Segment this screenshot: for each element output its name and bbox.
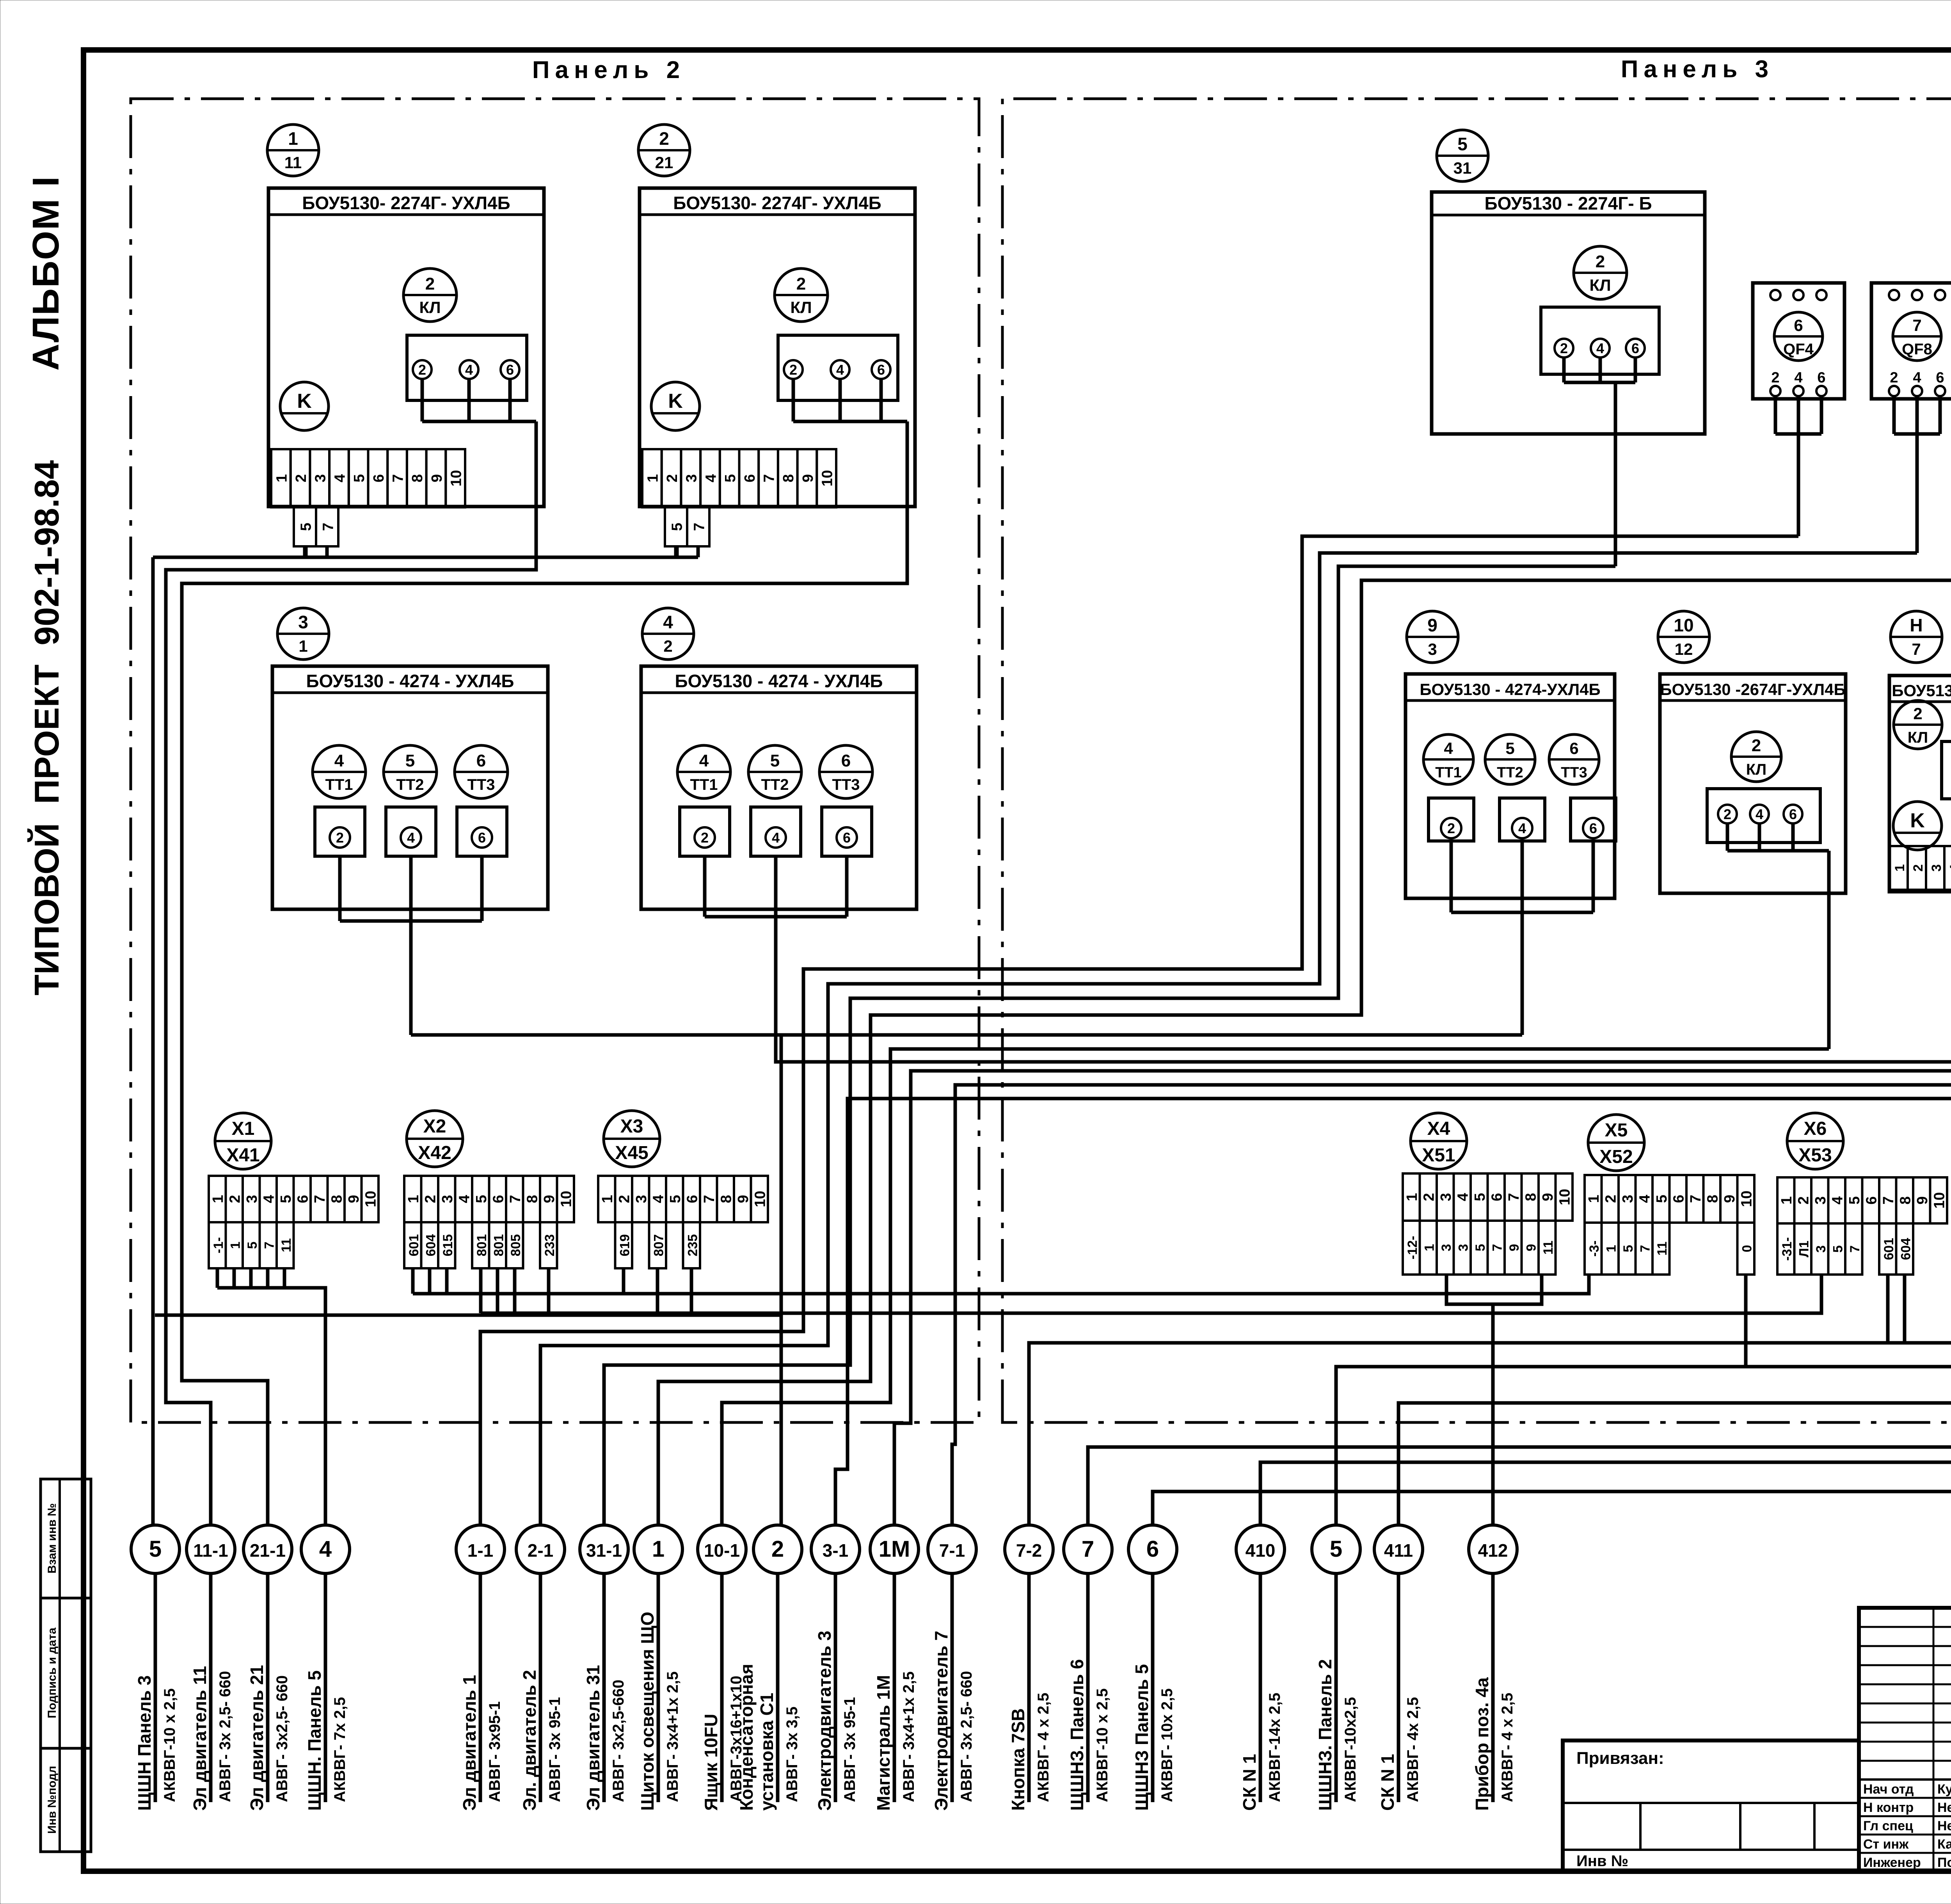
wire tap to circle 2 [780, 1035, 783, 1524]
wire block 2/21 sub 7 drop [697, 546, 700, 557]
svg-text:2: 2 [1724, 806, 1731, 822]
terminal strip X3 sub label 235 [683, 1222, 700, 1268]
svg-text:2: 2 [1447, 820, 1455, 836]
cable 2 lead [776, 1573, 780, 1802]
terminal 6 [872, 360, 890, 379]
cable 7-1 labels [931, 1631, 975, 1811]
svg-text:ТИПОВОЙ ПРОЕКТ 902-1-98.84: ТИПОВОЙ ПРОЕКТ 902-1-98.84 [27, 460, 66, 996]
cable 3-1 lead [834, 1573, 837, 1802]
svg-text:-12-: -12- [1405, 1236, 1420, 1259]
svg-text:Взам инв №: Взам инв № [46, 1503, 59, 1573]
terminal strip X6 sub labels 601,604 [1879, 1223, 1913, 1275]
svg-text:АВВГ- 3х2,5-660: АВВГ- 3х2,5-660 [610, 1680, 627, 1802]
circle 6/QF4 [1774, 312, 1823, 361]
pos circle 1/11 [267, 124, 319, 176]
cable circle 7-2 [1005, 1525, 1053, 1573]
svg-text:5: 5 [770, 751, 780, 770]
wire 10/12 drop [1827, 851, 1831, 1049]
svg-text:4: 4 [1596, 340, 1604, 356]
CT output square 2 [315, 807, 365, 856]
CT output square 2 (9/3) [1429, 798, 1474, 841]
svg-text:7: 7 [1490, 1244, 1505, 1252]
cable 2-1 lead [539, 1573, 542, 1802]
CT output square 6 [457, 807, 507, 856]
svg-text:6: 6 [1489, 1193, 1505, 1201]
terminal 2 [413, 360, 432, 379]
svg-text:4: 4 [1444, 739, 1453, 757]
wire block 4/2 CT join 2-6 [705, 856, 847, 917]
cable 411 lead [1397, 1573, 1400, 1802]
svg-text:21-1: 21-1 [250, 1540, 286, 1561]
svg-text:8: 8 [409, 474, 426, 482]
svg-text:X41: X41 [226, 1145, 259, 1166]
svg-text:10: 10 [1674, 615, 1693, 635]
wire X1 sub stub [233, 1268, 236, 1288]
svg-text:Конденсаторная: Конденсаторная [736, 1664, 757, 1811]
svg-text:КЛ: КЛ [1746, 761, 1766, 778]
pos circle Н/7 [1891, 611, 1942, 663]
svg-text:ТТ3: ТТ3 [467, 776, 495, 793]
svg-text:1: 1 [228, 1242, 243, 1249]
terminal strip 1-10 [642, 449, 836, 507]
svg-text:10: 10 [362, 1191, 379, 1207]
svg-text:X5: X5 [1605, 1120, 1628, 1141]
svg-text:Панель 2: Панель 2 [532, 57, 685, 84]
svg-text:АКВВГ- 4х 2,5: АКВВГ- 4х 2,5 [1404, 1697, 1421, 1802]
svg-text:Эл. двигатель 2: Эл. двигатель 2 [519, 1670, 540, 1811]
svg-text:5: 5 [149, 1536, 162, 1562]
svg-text:5: 5 [1846, 1196, 1863, 1204]
CT block БОУ5130-4274-УХЛ4Б (9/3) [1406, 674, 1615, 898]
svg-text:ТТ3: ТТ3 [832, 776, 860, 793]
wire circle 3-1 riser [835, 1099, 1951, 1524]
wire X1 collector [217, 1288, 325, 1524]
svg-text:1: 1 [652, 1536, 665, 1562]
svg-text:4: 4 [663, 612, 673, 632]
svg-text:7: 7 [507, 1195, 524, 1203]
svg-text:Эл двигатель 31: Эл двигатель 31 [583, 1665, 603, 1811]
cable 1М labels [873, 1671, 917, 1811]
svg-text:6: 6 [843, 830, 851, 846]
CT output square 4 [386, 807, 436, 856]
wire X1 sub stub [283, 1268, 286, 1288]
svg-text:801: 801 [474, 1234, 489, 1257]
panel 3 boundary (dash-dot) [1002, 66, 1951, 1422]
wire circle 1-1 riser [480, 536, 1798, 1524]
cable circle 21-1 [243, 1525, 292, 1573]
terminal 4 [1591, 339, 1610, 357]
svg-text:QF4: QF4 [1783, 341, 1814, 358]
CT output square 6 [822, 807, 872, 856]
svg-text:615: 615 [441, 1234, 455, 1257]
svg-text:ТТ2: ТТ2 [1497, 764, 1523, 781]
svg-text:5: 5 [298, 523, 314, 531]
svg-text:411: 411 [1384, 1540, 1413, 1561]
terminal strip X4 cells 1-10 [1403, 1173, 1573, 1221]
svg-text:5: 5 [1621, 1245, 1636, 1252]
panel 2 boundary (dash-dot) [131, 99, 979, 1422]
svg-text:7: 7 [1880, 1196, 1897, 1204]
svg-text:СК N 1: СК N 1 [1377, 1754, 1398, 1811]
cable 410 labels [1239, 1692, 1283, 1811]
svg-text:801: 801 [491, 1234, 506, 1257]
svg-text:БОУ5130 - 4274 - УХЛ4Б: БОУ5130 - 4274 - УХЛ4Б [306, 671, 514, 691]
svg-text:Кулагин: Кулагин [1937, 1782, 1951, 1797]
svg-text:ЩШНЗ Панель 5: ЩШНЗ Панель 5 [1132, 1664, 1152, 1811]
svg-text:6: 6 [476, 751, 486, 770]
svg-text:6: 6 [841, 751, 851, 770]
svg-text:4: 4 [407, 830, 415, 846]
svg-text:Инв №подл: Инв №подл [46, 1766, 59, 1834]
svg-text:3: 3 [633, 1195, 650, 1203]
circle K [280, 382, 329, 430]
svg-text:5: 5 [1505, 739, 1514, 757]
terminal 4 [831, 360, 849, 379]
cable circle 1-1 [456, 1525, 505, 1573]
svg-text:11: 11 [1541, 1241, 1556, 1255]
svg-text:1: 1 [405, 1195, 422, 1203]
svg-text:X52: X52 [1599, 1147, 1633, 1167]
svg-text:7: 7 [761, 474, 778, 482]
svg-text:X2: X2 [423, 1116, 446, 1137]
svg-text:4: 4 [1756, 806, 1763, 822]
svg-text:9: 9 [541, 1195, 558, 1203]
svg-text:QF8: QF8 [1902, 341, 1932, 358]
cable circle 7 [1064, 1525, 1112, 1573]
svg-text:5: 5 [1472, 1193, 1488, 1201]
svg-text:4: 4 [261, 1195, 277, 1203]
svg-text:2: 2 [227, 1195, 243, 1203]
svg-text:Инв №: Инв № [1576, 1852, 1628, 1870]
terminal strip X5 sub labels [1585, 1223, 1670, 1275]
wire X3 sub stub 619 [622, 1268, 625, 1294]
svg-text:1: 1 [1604, 1245, 1619, 1252]
svg-text:ТТ1: ТТ1 [325, 776, 353, 793]
svg-text:9: 9 [1427, 615, 1437, 635]
svg-text:3: 3 [1428, 640, 1437, 658]
terminal 2 [784, 360, 803, 379]
cable circle 11-1 [187, 1525, 235, 1573]
svg-text:1М: 1М [879, 1536, 910, 1562]
svg-text:5: 5 [669, 523, 685, 531]
circle 5/ТТ2 [1485, 734, 1535, 784]
wire X3 sub stub 807 [656, 1268, 659, 1313]
wire X6 sub 604 drop [1903, 1275, 1907, 1343]
svg-text:6: 6 [1670, 1195, 1687, 1203]
cable 5 labels [134, 1675, 178, 1811]
cable circle 7-1 [928, 1525, 976, 1573]
svg-text:6: 6 [1146, 1536, 1159, 1562]
svg-text:1: 1 [210, 1195, 226, 1203]
cable 2 labels [736, 1664, 801, 1811]
terminal strip X3 sub label 807 [649, 1222, 666, 1268]
svg-text:9: 9 [1540, 1193, 1556, 1201]
svg-text:АКВВГ-10 х 2,5: АКВВГ-10 х 2,5 [161, 1688, 178, 1802]
svg-text:7: 7 [1848, 1245, 1862, 1253]
wire block 2/21 subs to bus [675, 546, 679, 557]
panel 3 label [1621, 56, 1774, 83]
svg-text:7: 7 [1912, 640, 1921, 658]
wire X2 sub stub [479, 1268, 483, 1313]
svg-text:1: 1 [1779, 1196, 1795, 1204]
svg-text:2: 2 [425, 274, 435, 293]
svg-text:3: 3 [1456, 1244, 1471, 1252]
svg-text:БОУ5130- 3074Г-УХЛ4Б: БОУ5130- 3074Г-УХЛ4Б [1892, 681, 1951, 700]
cable circle 410 [1236, 1525, 1285, 1573]
circle K [651, 382, 700, 430]
svg-text:Подпись и дата: Подпись и дата [46, 1627, 59, 1718]
svg-text:3: 3 [244, 1195, 260, 1203]
svg-text:установка С1: установка С1 [757, 1693, 777, 1811]
cable 7-2 labels [1008, 1692, 1052, 1811]
wire circle 411 line [1398, 293, 1951, 1524]
wire X2 sub stub [513, 1268, 517, 1313]
svg-text:11: 11 [279, 1238, 294, 1252]
svg-text:K: K [1910, 809, 1925, 832]
cable 5 lead [154, 1573, 157, 1802]
svg-text:7: 7 [312, 1195, 328, 1203]
wire 5/31 drop [1614, 382, 1617, 566]
sub terminals 5,7 [294, 507, 338, 546]
svg-text:9: 9 [1722, 1195, 1738, 1203]
svg-text:БОУ5130- 2274Г- УХЛ4Б: БОУ5130- 2274Г- УХЛ4Б [302, 193, 510, 213]
circle 4/ТТ1 [313, 745, 366, 798]
svg-text:7: 7 [1912, 316, 1921, 334]
cable circle 2 [753, 1525, 802, 1573]
CT output square 4 (9/3) [1500, 798, 1545, 841]
svg-text:2: 2 [293, 474, 309, 482]
svg-text:АКВВГ- 4 х 2,5: АКВВГ- 4 х 2,5 [1035, 1692, 1052, 1802]
svg-text:5: 5 [405, 751, 415, 770]
CT output square 2 [680, 807, 730, 856]
starter block БОУ5130-2274Г-УХЛ4Б (2/21) [640, 188, 915, 507]
svg-text:X4: X4 [1427, 1118, 1450, 1139]
svg-text:2: 2 [1752, 736, 1761, 755]
svg-text:410: 410 [1246, 1540, 1276, 1561]
terminal 2 [1718, 805, 1737, 823]
svg-text:-31-: -31- [1780, 1237, 1795, 1260]
svg-text:1-1: 1-1 [467, 1540, 493, 1561]
cable circle 5 [1312, 1525, 1360, 1573]
svg-text:Кнопка 7SВ: Кнопка 7SВ [1008, 1708, 1028, 1811]
svg-text:619: 619 [617, 1234, 632, 1257]
wire from sub terminal 5 [303, 546, 307, 557]
cable circle 411 [1374, 1525, 1423, 1573]
svg-text:7: 7 [262, 1242, 277, 1249]
svg-text:Прибор поз. 4а: Прибор поз. 4а [1472, 1677, 1492, 1811]
svg-text:АКВВГ- 7х 2,5: АКВВГ- 7х 2,5 [331, 1697, 348, 1802]
wire X1 sub stub [249, 1268, 253, 1288]
connector circle X4/X51 [1411, 1113, 1467, 1169]
svg-text:БОУ5130 - 2274Г- Б: БОУ5130 - 2274Г- Б [1484, 193, 1652, 213]
svg-text:8: 8 [524, 1195, 540, 1203]
svg-text:10: 10 [558, 1191, 574, 1207]
CT block БОУ5130-4274-УХЛ4Б (3/1) [272, 666, 548, 909]
svg-text:7: 7 [1506, 1193, 1522, 1201]
cable 7-2 lead [1027, 1573, 1031, 1802]
svg-text:9: 9 [1914, 1196, 1931, 1204]
svg-text:2: 2 [663, 637, 672, 655]
svg-text:9: 9 [1524, 1244, 1539, 1252]
cable 1-1 lead [479, 1573, 482, 1802]
wire 9/3 CT join [1451, 841, 1593, 912]
svg-text:АКВВГ- 4 х 2,5: АКВВГ- 4 х 2,5 [1499, 1692, 1516, 1802]
svg-text:4: 4 [772, 830, 780, 846]
svg-text:235: 235 [685, 1234, 700, 1257]
svg-text:9: 9 [800, 474, 816, 482]
cable 11-1 lead [209, 1573, 213, 1802]
cable circle 4 [301, 1525, 350, 1573]
svg-text:5: 5 [245, 1242, 260, 1249]
svg-text:7: 7 [691, 523, 707, 531]
svg-text:Электродвигатель 3: Электродвигатель 3 [814, 1631, 835, 1811]
cable 11-1 labels [190, 1666, 234, 1811]
cable 1-1 labels [459, 1675, 503, 1811]
svg-text:4: 4 [334, 751, 344, 770]
svg-text:5: 5 [1830, 1245, 1845, 1253]
cable 4 lead [324, 1573, 327, 1802]
svg-text:2: 2 [422, 1195, 439, 1203]
svg-text:9: 9 [735, 1195, 752, 1203]
svg-text:1: 1 [1404, 1193, 1420, 1201]
svg-text:АВВГ- 3х4+1х 2,5: АВВГ- 3х4+1х 2,5 [664, 1671, 681, 1802]
svg-text:Потоцкий: Потоцкий [1937, 1855, 1951, 1870]
circle 4/ТТ1 [1423, 734, 1473, 784]
svg-text:604: 604 [1898, 1238, 1913, 1260]
pos circle 5/31 [1437, 130, 1488, 181]
svg-text:АВВГ- 3х95-1: АВВГ- 3х95-1 [486, 1701, 503, 1802]
circle 2/КЛ [775, 268, 828, 322]
svg-text:7-2: 7-2 [1016, 1540, 1042, 1561]
pos circle 10/12 [1658, 611, 1709, 663]
svg-text:601: 601 [407, 1234, 421, 1257]
svg-text:3: 3 [313, 474, 329, 482]
circle K (Н/7) [1893, 802, 1942, 850]
svg-text:2: 2 [336, 830, 344, 846]
svg-text:6: 6 [1863, 1196, 1880, 1204]
wire QF4 pins join [1775, 396, 1821, 434]
svg-text:10: 10 [752, 1191, 768, 1207]
svg-text:КЛ: КЛ [419, 298, 441, 316]
svg-text:АВВГ- 3х 95-1: АВВГ- 3х 95-1 [546, 1697, 563, 1802]
wire circle 410 line [1260, 206, 1951, 1524]
svg-text:1: 1 [288, 128, 298, 149]
svg-text:5: 5 [1654, 1195, 1670, 1203]
breaker block QF8 [1871, 283, 1951, 399]
wire X4 bracket [1446, 1275, 1542, 1524]
svg-text:6: 6 [1569, 739, 1578, 757]
svg-text:АВВГ- 3х 2,5- 660: АВВГ- 3х 2,5- 660 [217, 1671, 234, 1802]
svg-text:Эл двигатель 1: Эл двигатель 1 [459, 1675, 480, 1811]
svg-text:31-1: 31-1 [586, 1540, 622, 1561]
terminal strip X5 sub label 0 [1738, 1223, 1755, 1275]
wire circle 5 line [1336, 251, 1951, 1524]
svg-text:2: 2 [796, 274, 806, 293]
svg-text:4: 4 [1794, 370, 1802, 386]
svg-text:ТТ1: ТТ1 [1435, 764, 1462, 781]
svg-text:ЩШНЗ. Панель 6: ЩШНЗ. Панель 6 [1067, 1659, 1087, 1811]
svg-text:5: 5 [1473, 1244, 1488, 1252]
svg-text:6: 6 [371, 474, 387, 482]
svg-text:X42: X42 [418, 1143, 451, 1163]
svg-text:K: K [297, 390, 312, 412]
svg-text:807: 807 [651, 1234, 666, 1257]
svg-text:11-1: 11-1 [193, 1540, 228, 1561]
terminal strip X2 sub labels 801,801,805 [472, 1222, 523, 1268]
wire left riser to circle 5 [151, 557, 155, 1524]
svg-text:2: 2 [616, 1195, 633, 1203]
svg-text:X53: X53 [1798, 1145, 1832, 1166]
svg-text:4: 4 [1518, 820, 1526, 836]
pos circle 3/1 [277, 608, 329, 660]
svg-text:21: 21 [655, 153, 673, 172]
terminal box (Н/7) [1942, 741, 1951, 799]
svg-text:4: 4 [1829, 1196, 1846, 1204]
svg-text:АВВГ- 3х 3,5: АВВГ- 3х 3,5 [784, 1707, 801, 1802]
svg-text:11: 11 [1655, 1242, 1670, 1256]
cable 1М lead [893, 1573, 896, 1802]
title block signature table [1859, 1608, 1951, 1871]
wire from sub terminal 5 [674, 546, 678, 557]
svg-text:Щиток освещения ЩО: Щиток освещения ЩО [637, 1612, 657, 1811]
svg-text:K: K [668, 390, 683, 412]
cable 10-1 labels [701, 1676, 745, 1811]
svg-text:6: 6 [1817, 370, 1825, 386]
svg-text:Н: Н [1910, 615, 1923, 635]
cable 7-1 lead [951, 1573, 954, 1802]
circle 2/КЛ (Н/7) [1894, 700, 1942, 749]
svg-text:7: 7 [1082, 1536, 1094, 1562]
connector circle X5/X52 [1588, 1115, 1644, 1171]
svg-text:БОУ5130 -2674Г-УХЛ4Б: БОУ5130 -2674Г-УХЛ4Б [1660, 680, 1845, 699]
cable circle 412 [1469, 1525, 1517, 1573]
left margin text АЛЬБОМ I [25, 176, 67, 371]
svg-text:2: 2 [1890, 370, 1898, 386]
svg-text:5: 5 [1457, 134, 1468, 154]
terminal 4 [1750, 805, 1769, 823]
svg-text:3: 3 [1439, 1244, 1454, 1252]
svg-text:ЩШНЗ. Панель 2: ЩШНЗ. Панель 2 [1315, 1659, 1335, 1811]
svg-text:2: 2 [664, 474, 681, 482]
svg-text:6: 6 [1631, 340, 1639, 356]
panel 2 label [532, 57, 685, 84]
terminal 6 [1784, 805, 1802, 823]
svg-text:7-1: 7-1 [939, 1540, 965, 1561]
svg-text:Привязан:: Привязан: [1576, 1749, 1664, 1768]
svg-text:8: 8 [780, 474, 797, 482]
cable circle 1М [870, 1525, 919, 1573]
wire QF8 drop [1915, 434, 1919, 553]
svg-text:7: 7 [1688, 1195, 1704, 1203]
svg-text:6: 6 [1936, 370, 1944, 386]
svg-text:КЛ: КЛ [1908, 729, 1928, 746]
CT block БОУ5130-4274-УХЛ4Б (4/2) [641, 666, 917, 909]
wire X2 sub stub [428, 1268, 432, 1294]
svg-text:7: 7 [390, 474, 407, 482]
wire bus B2 to X6 [481, 1275, 1821, 1313]
wire X3 sub stub 235 [690, 1268, 693, 1313]
svg-text:7: 7 [320, 523, 336, 531]
terminal box (5/31) [1541, 307, 1659, 374]
pos circle 9/3 [1407, 611, 1458, 663]
svg-text:3: 3 [1929, 864, 1944, 872]
svg-text:2: 2 [418, 362, 426, 378]
svg-text:8: 8 [1523, 1193, 1539, 1201]
svg-text:Некрасов: Некрасов [1937, 1819, 1951, 1833]
svg-text:-3-: -3- [1587, 1241, 1602, 1257]
connector circle X6/X53 [1787, 1113, 1843, 1169]
svg-text:805: 805 [508, 1234, 523, 1257]
